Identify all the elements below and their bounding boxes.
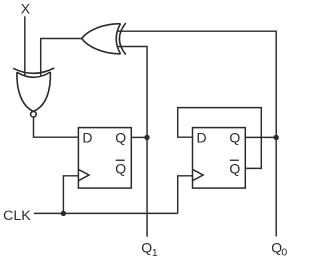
svg-text:Q: Q (229, 130, 240, 146)
svg-text:0: 0 (281, 247, 287, 257)
svg-text:1: 1 (152, 247, 158, 257)
svg-text:D: D (197, 130, 207, 146)
svg-text:X: X (21, 1, 31, 17)
svg-text:Q: Q (141, 239, 152, 255)
svg-text:Q: Q (115, 160, 126, 176)
svg-text:CLK: CLK (3, 208, 31, 224)
svg-text:Q: Q (229, 160, 240, 176)
svg-text:Q: Q (115, 130, 126, 146)
svg-text:D: D (82, 130, 92, 146)
